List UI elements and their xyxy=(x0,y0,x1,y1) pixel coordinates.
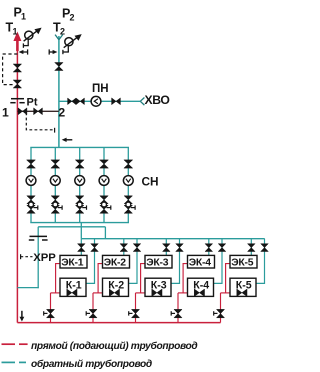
pump CH-3 xyxy=(75,176,85,186)
wire: unit 5 drain drop (red) xyxy=(220,293,222,323)
wire: unit 1 feed drop into boiler xyxy=(80,239,82,256)
check valve on pump branch 5 xyxy=(124,202,135,213)
svg-text:К-4: К-4 xyxy=(193,279,209,291)
unit K-2 xyxy=(103,278,129,296)
wire: unit 2 boiler outlet (red) xyxy=(98,264,102,293)
pump CH-4 xyxy=(99,176,109,186)
svg-text:прямой (подающий) трубопровод: прямой (подающий) трубопровод xyxy=(31,340,197,352)
unit K-3 xyxy=(145,278,171,296)
valve on make-up line 2 xyxy=(76,98,84,105)
drain valve unit 1 xyxy=(44,309,55,317)
wire: XPP branch vertical xyxy=(37,227,39,288)
valve on pump branch 3 (top) xyxy=(75,160,84,168)
valve on pump branch 4 (top) xyxy=(100,160,109,168)
valve on pump branch 4 (bottom) xyxy=(100,196,108,204)
unit K-5 xyxy=(230,278,256,296)
flow arrow: supply outlet up xyxy=(16,39,19,51)
wire: dashed bypass around valves xyxy=(3,54,18,85)
wire: main supply riser (red, left) xyxy=(16,36,18,323)
valve on jumper (left) xyxy=(18,108,27,115)
wire: pump branch 4 xyxy=(103,147,105,222)
valve V2 on supply riser xyxy=(13,80,21,88)
valve on jumper (right) xyxy=(34,108,43,115)
svg-text:1: 1 xyxy=(13,27,18,37)
valve on pump branch 1 (top) xyxy=(27,160,36,168)
valve unit 3 K-feed xyxy=(176,244,184,252)
svg-text:К-1: К-1 xyxy=(66,279,82,291)
valve V1 on supply riser xyxy=(13,64,21,72)
wire: pump branch 1 xyxy=(30,147,32,222)
flow arrow tail: return inlet xyxy=(55,35,63,40)
pump CH-5 xyxy=(123,176,133,186)
wire: unit 4 boiler outlet (red) xyxy=(183,264,187,293)
unit K-4 xyxy=(188,278,214,296)
drain valve unit 5 xyxy=(214,309,225,317)
wire: link drop right xyxy=(104,227,106,239)
svg-text:Pt: Pt xyxy=(27,96,38,108)
wire: make-up water line to XBO xyxy=(59,100,140,102)
wire: jumper between risers (nodes 1-2) xyxy=(17,110,59,112)
wire: unit 1 feed drop to K box xyxy=(86,239,95,284)
boiler EK-3 xyxy=(145,255,172,268)
svg-text:1: 1 xyxy=(2,105,9,119)
wire: riser discharge-to-boiler header xyxy=(80,223,82,239)
tap T1 (impulse line, arrow into supply pipe) xyxy=(19,49,28,54)
svg-text:ХВО: ХВО xyxy=(145,93,170,107)
wire: unit 3 drain drop (red) xyxy=(135,293,137,323)
wire: unit 5 feed drop to K box xyxy=(256,239,265,284)
tap T2 (impulse line, arrow into return pipe) xyxy=(49,49,57,54)
drain valve unit 4 xyxy=(171,309,182,317)
wire: main return riser (teal) xyxy=(58,36,60,147)
svg-text:К-5: К-5 xyxy=(236,279,252,291)
valve on pump branch 2 (bottom) xyxy=(51,196,59,204)
wire: dashed impulse line to XPP xyxy=(20,254,22,259)
valve unit 1 feed xyxy=(78,244,86,252)
valve unit 2 feed xyxy=(120,244,128,252)
wire: pump branch 2 xyxy=(54,147,56,222)
wire: unit 2 feed drop into boiler xyxy=(123,239,125,256)
svg-text:ЭК-3: ЭК-3 xyxy=(146,258,169,269)
tap arrow into return riser above header xyxy=(62,138,73,142)
wire: unit 4 red link to K box xyxy=(178,292,188,294)
valve on make-up line 1 xyxy=(68,98,76,105)
wire: unit 2 red link to K box xyxy=(93,292,103,294)
wire: unit 5 boiler outlet (red) xyxy=(226,264,230,293)
wire: drain header (red, bottom) xyxy=(17,322,220,324)
legend: supply line sample xyxy=(2,343,16,345)
wire: dashed impulse line from jumper xyxy=(26,113,54,130)
svg-text:1: 1 xyxy=(21,12,26,22)
wire: lower link header xyxy=(38,226,105,228)
valve unit 5 K-feed xyxy=(261,244,269,252)
svg-text:ЭК-2: ЭК-2 xyxy=(104,258,127,269)
wire: unit 3 feed drop to K box xyxy=(171,239,180,284)
svg-text:ХРР: ХРР xyxy=(33,252,56,264)
wire: unit 3 boiler outlet (red) xyxy=(141,264,145,293)
valve unit 4 feed xyxy=(205,244,213,252)
valve unit 2 K-feed xyxy=(133,244,141,252)
wire: pump branch 3 xyxy=(79,147,81,222)
wire: pump discharge header xyxy=(30,222,129,224)
valve unit 1 K-feed xyxy=(91,244,99,252)
pump PN xyxy=(91,96,101,106)
wire: unit 2 drain drop (red) xyxy=(92,293,94,323)
wire: unit 4 feed drop to K box xyxy=(214,239,223,284)
drain valve unit 2 xyxy=(86,309,97,317)
check valve on pump branch 1 xyxy=(27,202,38,213)
wire: unit 2 feed drop to K box xyxy=(129,239,138,284)
svg-text:2: 2 xyxy=(70,13,75,23)
valve on pump branch 3 (bottom) xyxy=(76,196,84,204)
valve on make-up line 3 xyxy=(112,98,121,105)
wire: unit 4 feed drop into boiler xyxy=(208,239,210,256)
wire: unit 4 drain drop (red) xyxy=(177,293,179,323)
pump CH-1 xyxy=(26,176,36,186)
boiler EK-4 xyxy=(188,255,215,268)
svg-text:ЭК-1: ЭК-1 xyxy=(61,258,84,269)
valve unit 3 feed xyxy=(163,244,171,252)
check valve on pump branch 3 xyxy=(76,202,87,213)
gauge P1 (manometer) xyxy=(23,28,41,48)
wire: unit 1 drain drop (red) xyxy=(50,293,52,323)
wire: unit 3 feed drop into boiler xyxy=(165,239,167,256)
svg-text:ПН: ПН xyxy=(92,83,109,95)
drain arrow down xyxy=(20,311,25,322)
svg-text:ЭК-5: ЭК-5 xyxy=(231,258,254,269)
wire: unit 1 red link to K box xyxy=(51,292,61,294)
valve on pump branch 1 (bottom) xyxy=(27,196,35,204)
unit K-1 xyxy=(60,278,86,296)
wire: unit 1 boiler outlet (red) xyxy=(56,264,60,293)
wire: XPP branch elbow to supply riser xyxy=(17,287,38,289)
wire: unit 5 red link to K box xyxy=(221,292,231,294)
svg-text:К-3: К-3 xyxy=(151,279,167,291)
wire: pump suction header xyxy=(30,146,129,148)
wire: pump branch 5 xyxy=(127,147,129,222)
valve unit 5 feed xyxy=(248,244,256,252)
valve on pump branch 5 (bottom) xyxy=(124,196,132,204)
svg-text:К-2: К-2 xyxy=(108,279,124,291)
drain valve unit 3 xyxy=(129,309,140,317)
svg-text:ЭК-4: ЭК-4 xyxy=(189,258,212,269)
boiler EK-1 xyxy=(60,255,87,268)
pump CH-2 xyxy=(50,176,60,186)
legend: return line sample xyxy=(2,361,16,363)
wire: unit 3 red link to K box xyxy=(136,292,146,294)
svg-text:СН: СН xyxy=(142,174,159,188)
gauge P2 (manometer) xyxy=(63,34,82,54)
valve on return riser xyxy=(55,63,63,71)
wire: unit 5 feed drop into boiler xyxy=(250,239,252,256)
check valve on pump branch 2 xyxy=(51,202,62,213)
valve unit 4 K-feed xyxy=(218,244,226,252)
wire: boiler feed header xyxy=(81,238,264,240)
flow transducer on XPP branch xyxy=(29,236,48,240)
valve on pump branch 5 (top) xyxy=(124,160,133,168)
flow transducer Pt on supply riser xyxy=(10,99,24,103)
valve on pump branch 2 (top) xyxy=(51,160,60,168)
flow arrow tail at XBO xyxy=(140,98,144,106)
check valve on pump branch 4 xyxy=(100,202,111,213)
boiler EK-2 xyxy=(103,255,130,268)
svg-text:обратный трубопровод: обратный трубопровод xyxy=(31,358,152,370)
boiler EK-5 xyxy=(230,255,257,268)
svg-text:2: 2 xyxy=(58,105,65,119)
